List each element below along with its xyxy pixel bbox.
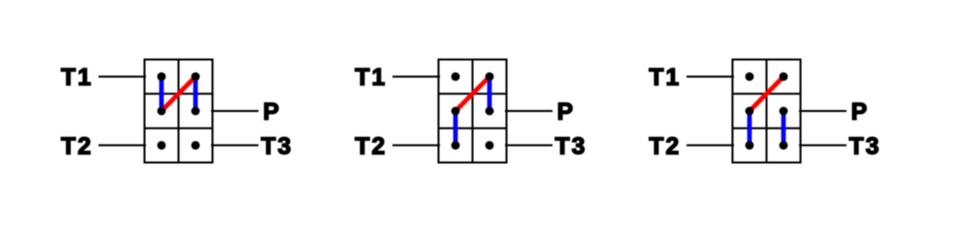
terminal block TB2 horizontal divider lower	[439, 127, 507, 129]
jumper blue right column lower	[781, 111, 786, 145]
connection diagram 2 : terminal block TB2	[355, 60, 587, 163]
wire P lead-out	[211, 110, 259, 112]
svg-text:T2: T2	[61, 133, 93, 160]
connection diagram 1 : terminal block TB1	[61, 60, 293, 163]
svg-text:T1: T1	[355, 64, 387, 91]
jumper blue left column lower	[747, 111, 752, 145]
svg-text:P: P	[851, 99, 869, 126]
terminal block TB1 horizontal divider upper	[145, 93, 213, 95]
terminal dot T2	[157, 141, 166, 150]
terminal dot T3	[191, 141, 200, 150]
connection diagram 3 : terminal block TB3	[649, 60, 881, 163]
wire T3 lead-out	[799, 144, 847, 146]
wire T1 lead-in	[99, 76, 147, 78]
jumper blue right column	[193, 77, 198, 111]
svg-text:T1: T1	[649, 64, 681, 91]
terminal dot T3	[485, 141, 494, 150]
wire T2 lead-in	[99, 144, 147, 146]
terminal dot P	[779, 107, 788, 116]
terminal block TB1 horizontal divider lower	[145, 127, 213, 129]
svg-text:T3: T3	[261, 133, 293, 160]
jumper blue T1-left column	[159, 77, 164, 111]
terminal block TB3 horizontal divider lower	[733, 127, 801, 129]
jumper red diagonal	[162, 77, 196, 111]
svg-text:T3: T3	[849, 133, 881, 160]
svg-text:T2: T2	[355, 133, 387, 160]
svg-text:T2: T2	[649, 133, 681, 160]
wire P lead-out	[505, 110, 553, 112]
terminal block TB2 outline	[439, 60, 507, 163]
terminal dot T2	[745, 141, 754, 150]
terminal dot mid-left	[451, 107, 460, 116]
wire T2 lead-in	[687, 144, 735, 146]
terminal block TB2 horizontal divider upper	[439, 93, 507, 95]
terminal block TB3 horizontal divider upper	[733, 93, 801, 95]
jumper blue right column	[487, 77, 492, 111]
terminal block TB1 vertical divider	[178, 60, 180, 163]
terminal dot T3	[779, 141, 788, 150]
svg-text:T1: T1	[61, 64, 93, 91]
terminal dot T1	[451, 72, 460, 81]
wire T3 lead-out	[211, 144, 259, 146]
terminal dot top-right	[485, 72, 494, 81]
terminal block TB3 vertical divider	[766, 60, 768, 163]
wire T1 lead-in	[687, 76, 735, 78]
jumper red diagonal	[750, 77, 784, 111]
wire P lead-out	[799, 110, 847, 112]
terminal block TB1 outline	[145, 60, 213, 163]
terminal dot mid-left	[745, 107, 754, 116]
terminal dot T1	[745, 72, 754, 81]
terminal dot P	[191, 107, 200, 116]
terminal dot mid-left	[157, 107, 166, 116]
svg-text:P: P	[263, 99, 281, 126]
terminal dot top-right	[779, 72, 788, 81]
jumper blue left column lower	[453, 111, 458, 145]
wire T3 lead-out	[505, 144, 553, 146]
wire T1 lead-in	[393, 76, 441, 78]
terminal dot top-right	[191, 72, 200, 81]
terminal dot P	[485, 107, 494, 116]
jumper red diagonal	[456, 77, 490, 111]
svg-text:P: P	[557, 99, 575, 126]
terminal dot T2	[451, 141, 460, 150]
wire T2 lead-in	[393, 144, 441, 146]
terminal dot T1	[157, 72, 166, 81]
terminal block TB3 outline	[733, 60, 801, 163]
terminal block TB2 vertical divider	[472, 60, 474, 163]
svg-text:T3: T3	[555, 133, 587, 160]
